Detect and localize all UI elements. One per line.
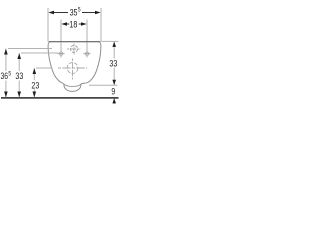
extension line for 36.5 (supply height) bbox=[8, 48, 52, 50]
dim 33 right down arrow bbox=[112, 80, 116, 85]
extension line right of dim 35.5 bbox=[100, 8, 102, 42]
svg-text:36: 36 bbox=[1, 71, 9, 81]
supply hole crosshair bbox=[67, 48, 81, 50]
svg-text:18: 18 bbox=[69, 20, 77, 30]
dim 36.5 up arrow bbox=[4, 49, 8, 55]
pan top edge (darker) bbox=[49, 41, 101, 43]
left bolt hole dashed circle bbox=[59, 52, 63, 56]
outlet hole crosshair bbox=[58, 67, 87, 69]
dim 18 line right segment bbox=[79, 23, 82, 25]
dim 35.5 line left segment bbox=[53, 12, 68, 14]
dim 23 vertical line bbox=[33, 68, 35, 80]
outlet hole dashed circle bbox=[67, 63, 78, 74]
dim 33 right vertical line bbox=[113, 41, 115, 58]
svg-text:33: 33 bbox=[15, 71, 23, 81]
dim 35.5 line right segment bbox=[82, 12, 96, 14]
svg-text:33: 33 bbox=[109, 58, 117, 68]
dim 33 left down arrow bbox=[17, 92, 21, 98]
dim 35.5 right arrow bbox=[95, 11, 101, 15]
pan rear outline bbox=[48, 42, 101, 84]
dim 18 line left segment bbox=[67, 23, 70, 25]
supply hole dashed circle bbox=[71, 46, 78, 53]
svg-text:35: 35 bbox=[70, 7, 78, 17]
extension line right of dim 18 bbox=[86, 20, 88, 58]
background bbox=[0, 0, 120, 120]
dim 33 left up arrow bbox=[17, 53, 21, 59]
svg-text:9: 9 bbox=[111, 87, 115, 97]
dim 33 left vertical line bbox=[18, 53, 20, 71]
dim 9 up arrow below floor bbox=[112, 98, 116, 103]
dim 18 left arrow bbox=[61, 22, 67, 26]
extension line top right (pan top) bbox=[102, 40, 119, 42]
floor line bbox=[1, 97, 119, 99]
dim 36.5 down arrow bbox=[4, 92, 8, 98]
dim 33 right up arrow bbox=[112, 42, 116, 47]
svg-text:23: 23 bbox=[31, 80, 39, 90]
left bolt hole cross bbox=[57, 53, 64, 55]
dim 36.5 vertical line bbox=[5, 49, 7, 72]
dim 9 lower stub below floor bbox=[113, 98, 115, 105]
extension line left of dim 18 bbox=[60, 20, 62, 58]
outlet pouch inner chord bbox=[64, 84, 81, 87]
outlet pouch U bbox=[64, 84, 81, 92]
extension line left of dim 35.5 bbox=[47, 8, 49, 42]
right bolt hole dashed circle bbox=[85, 52, 89, 56]
dim 23 down arrow bbox=[33, 92, 37, 98]
dim 23 up arrow bbox=[33, 68, 37, 74]
extension line for 23 (outlet height) bbox=[36, 67, 53, 69]
extension line for 33 left (bolt height) bbox=[21, 52, 58, 54]
dim 18 right arrow bbox=[81, 22, 87, 26]
right bolt hole cross bbox=[83, 53, 90, 55]
dim 35.5 left arrow bbox=[48, 11, 54, 15]
extension line bottom right (pan bottom) bbox=[89, 84, 118, 86]
